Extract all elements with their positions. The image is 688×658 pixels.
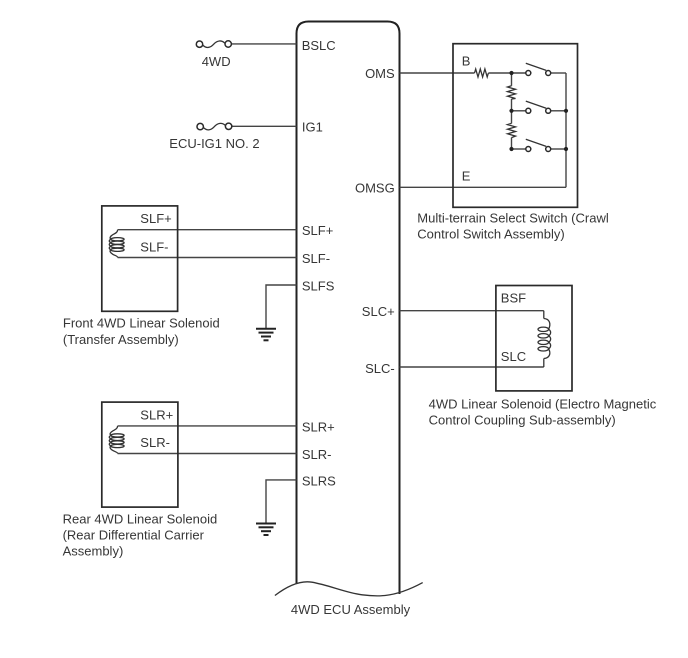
svg-text:IG1: IG1: [302, 120, 323, 135]
svg-text:SLC-: SLC-: [365, 361, 395, 376]
svg-text:(Rear Differential Carrier: (Rear Differential Carrier: [63, 527, 205, 542]
svg-text:Front 4WD Linear Solenoid: Front 4WD Linear Solenoid: [63, 316, 220, 331]
svg-text:SLR-: SLR-: [302, 447, 332, 462]
svg-text:E: E: [462, 169, 471, 184]
svg-text:Rear 4WD Linear Solenoid: Rear 4WD Linear Solenoid: [63, 511, 218, 526]
svg-text:Assembly): Assembly): [63, 543, 124, 558]
svg-text:SLRS: SLRS: [302, 473, 336, 488]
svg-text:SLC: SLC: [501, 349, 526, 364]
svg-text:BSLC: BSLC: [302, 38, 336, 53]
svg-text:B: B: [462, 54, 471, 69]
svg-text:SLR+: SLR+: [302, 419, 335, 434]
svg-text:SLF-: SLF-: [140, 239, 168, 254]
svg-text:SLFS: SLFS: [302, 279, 335, 294]
svg-text:SLC+: SLC+: [362, 304, 395, 319]
svg-text:4WD ECU Assembly: 4WD ECU Assembly: [291, 602, 411, 617]
svg-text:ECU-IG1 NO. 2: ECU-IG1 NO. 2: [169, 136, 259, 151]
svg-text:SLF+: SLF+: [302, 223, 333, 238]
svg-text:Control Switch Assembly): Control Switch Assembly): [417, 227, 564, 242]
svg-text:SLF-: SLF-: [302, 251, 330, 266]
svg-text:Multi-terrain Select Switch (C: Multi-terrain Select Switch (Crawl: [417, 210, 609, 225]
svg-text:Control Coupling Sub-assembly): Control Coupling Sub-assembly): [429, 413, 616, 428]
svg-text:SLR-: SLR-: [140, 435, 170, 450]
svg-text:OMS: OMS: [365, 66, 395, 81]
svg-text:SLR+: SLR+: [140, 407, 173, 422]
svg-text:OMSG: OMSG: [355, 180, 395, 195]
svg-text:SLF+: SLF+: [140, 211, 171, 226]
svg-text:BSF: BSF: [501, 291, 526, 306]
svg-text:4WD: 4WD: [202, 54, 231, 69]
svg-text:(Transfer Assembly): (Transfer Assembly): [63, 332, 179, 347]
svg-text:4WD Linear Solenoid (Electro M: 4WD Linear Solenoid (Electro Magnetic: [429, 396, 657, 411]
